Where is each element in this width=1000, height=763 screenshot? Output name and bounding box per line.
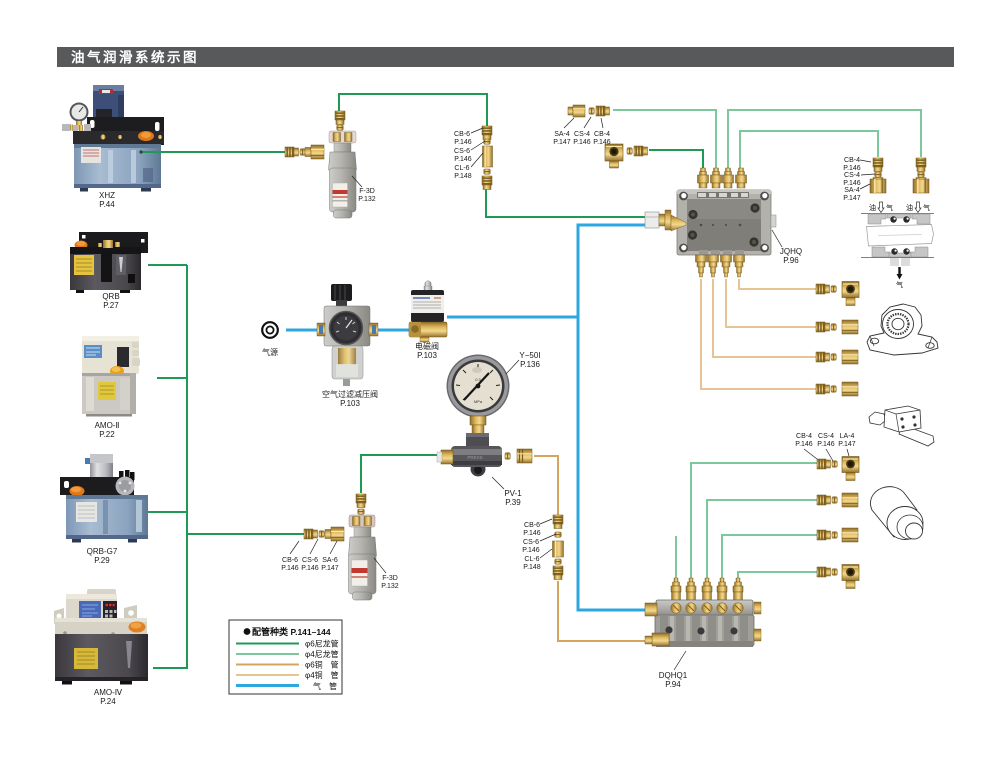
svg-text:气: 气 xyxy=(923,203,930,212)
svg-text:CS-6: CS-6 xyxy=(302,557,318,564)
svg-text:MPa: MPa xyxy=(474,399,483,404)
svg-text:DQHQ1: DQHQ1 xyxy=(659,671,688,680)
svg-text:P.22: P.22 xyxy=(99,430,115,439)
svg-text:SA-4: SA-4 xyxy=(844,187,860,194)
svg-text:P.146: P.146 xyxy=(523,530,540,537)
svg-text:P.44: P.44 xyxy=(99,200,115,209)
svg-text:φ6尼龙管: φ6尼龙管 xyxy=(305,639,339,649)
svg-text:P.136: P.136 xyxy=(520,360,540,369)
svg-text:SA-4: SA-4 xyxy=(554,131,570,138)
svg-text:电磁阀: 电磁阀 xyxy=(415,341,439,351)
svg-text:QRB: QRB xyxy=(102,292,119,301)
svg-text:P.147: P.147 xyxy=(321,565,338,572)
svg-text:P.147: P.147 xyxy=(838,441,855,448)
svg-text:Y−50I: Y−50I xyxy=(519,351,540,360)
svg-text:CB-4: CB-4 xyxy=(594,131,610,138)
svg-text:P.103: P.103 xyxy=(417,351,437,360)
svg-text:CS-4: CS-4 xyxy=(844,172,860,179)
svg-text:P.132: P.132 xyxy=(381,583,398,590)
svg-text:φ4铜 管: φ4铜 管 xyxy=(305,670,339,680)
svg-text:φ4尼龙管: φ4尼龙管 xyxy=(305,649,339,659)
svg-text:油气润滑系统示图: 油气润滑系统示图 xyxy=(71,49,199,65)
svg-text:P.148: P.148 xyxy=(454,173,471,180)
svg-text:P.39: P.39 xyxy=(505,498,521,507)
svg-text:气: 气 xyxy=(896,280,903,289)
svg-text:CL-6: CL-6 xyxy=(524,556,539,563)
svg-text:F-3D: F-3D xyxy=(382,575,398,582)
svg-text:AMO-Ⅳ: AMO-Ⅳ xyxy=(94,688,123,697)
svg-text:P.146: P.146 xyxy=(522,547,539,554)
svg-text:配管种类 P.141–144: 配管种类 P.141–144 xyxy=(252,626,331,637)
svg-text:气 管: 气 管 xyxy=(313,681,337,691)
svg-text:P.147: P.147 xyxy=(843,195,860,202)
svg-text:QRB-G7: QRB-G7 xyxy=(87,547,118,556)
svg-text:P.148: P.148 xyxy=(523,564,540,571)
svg-text:PV-1: PV-1 xyxy=(504,489,522,498)
svg-text:P.146: P.146 xyxy=(454,139,471,146)
svg-text:CL-6: CL-6 xyxy=(454,165,469,172)
svg-text:φ6铜 管: φ6铜 管 xyxy=(305,660,339,670)
svg-text:P.146: P.146 xyxy=(817,441,834,448)
svg-text:P.103: P.103 xyxy=(340,399,360,408)
svg-text:XHZ: XHZ xyxy=(99,191,115,200)
svg-text:CS-6: CS-6 xyxy=(454,148,470,155)
svg-text:P.147: P.147 xyxy=(553,139,570,146)
svg-text:P.146: P.146 xyxy=(843,165,860,172)
svg-text:油: 油 xyxy=(869,203,876,212)
svg-text:气源: 气源 xyxy=(262,347,278,357)
svg-text:CS-4: CS-4 xyxy=(574,131,590,138)
svg-text:P.27: P.27 xyxy=(103,301,119,310)
svg-text:P.146: P.146 xyxy=(301,565,318,572)
svg-text:P.146: P.146 xyxy=(281,565,298,572)
svg-text:油: 油 xyxy=(906,203,913,212)
svg-text:CB-4: CB-4 xyxy=(796,433,812,440)
svg-text:PRESS: PRESS xyxy=(467,455,482,460)
svg-text:F-3D: F-3D xyxy=(359,188,375,195)
svg-text:P.146: P.146 xyxy=(573,139,590,146)
svg-text:CB-6: CB-6 xyxy=(524,522,540,529)
svg-text:P.146: P.146 xyxy=(593,139,610,146)
svg-text:P.146: P.146 xyxy=(843,180,860,187)
svg-text:LA-4: LA-4 xyxy=(840,433,855,440)
svg-text:P.29: P.29 xyxy=(94,556,110,565)
svg-text:SA-6: SA-6 xyxy=(322,557,338,564)
svg-text:CS-6: CS-6 xyxy=(523,539,539,546)
svg-text:AMO-Ⅱ: AMO-Ⅱ xyxy=(95,421,120,430)
svg-text:CB-6: CB-6 xyxy=(454,131,470,138)
svg-text:CB-6: CB-6 xyxy=(282,557,298,564)
svg-text:P.146: P.146 xyxy=(454,156,471,163)
svg-text:气: 气 xyxy=(886,203,893,212)
svg-text:CB-4: CB-4 xyxy=(844,157,860,164)
svg-text:P.24: P.24 xyxy=(100,697,116,706)
svg-text:JQHQ: JQHQ xyxy=(780,247,802,256)
svg-text:空气过滤减压阀: 空气过滤减压阀 xyxy=(322,389,378,399)
svg-text:P.132: P.132 xyxy=(358,196,375,203)
svg-text:P.146: P.146 xyxy=(795,441,812,448)
svg-text:P.94: P.94 xyxy=(665,680,681,689)
svg-text:P.96: P.96 xyxy=(783,256,799,265)
svg-text:CS-4: CS-4 xyxy=(818,433,834,440)
